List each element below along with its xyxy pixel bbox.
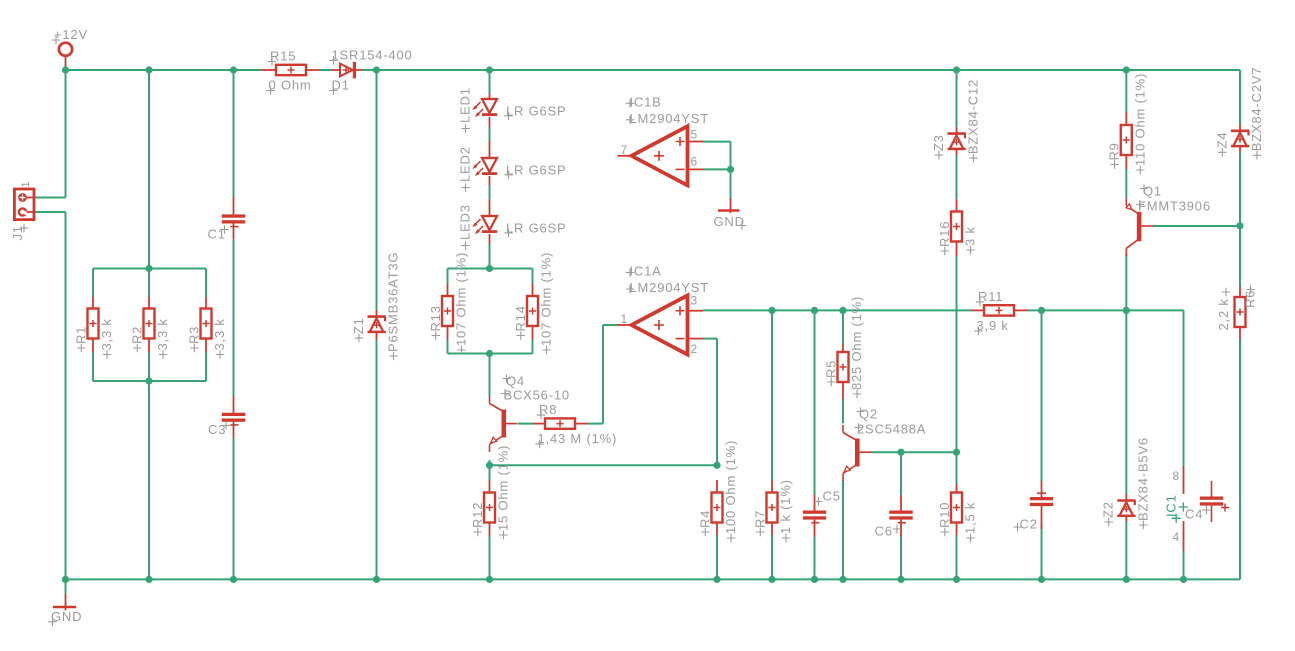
svg-text:LED2: LED2: [458, 146, 473, 182]
wire Z3/R16/R10 column: [956, 70, 958, 579]
wire R8 to IC1A pin1: [518, 325, 618, 424]
resistor R13: [428, 252, 469, 354]
svg-text:LM2904YST: LM2904YST: [630, 111, 709, 126]
svg-text:R14: R14: [513, 305, 528, 331]
resistor R6: [1216, 285, 1258, 339]
capacitor C6: [875, 495, 913, 539]
wire R1R2R3 column: [93, 70, 206, 579]
supply +12V symbol: [52, 27, 88, 67]
TVS diode Z1: [351, 252, 401, 361]
wire R13/R14 bus: [448, 269, 533, 397]
zener Z3: [931, 79, 981, 162]
capacitor C2: [1013, 481, 1053, 532]
svg-text:Z4: Z4: [1214, 132, 1229, 149]
wire R9/Q1/Z2 column: [1125, 70, 1127, 579]
resistor R8: [533, 402, 617, 448]
wire top rail (D1 to Z4 corner): [363, 70, 1241, 125]
resistor R12: [470, 445, 511, 539]
svg-text:R12: R12: [470, 502, 485, 528]
junction rail/Z3 col: [953, 66, 960, 73]
diode D1: [329, 48, 412, 95]
capacitor C5: [803, 489, 841, 537]
LED LED3: [458, 199, 567, 250]
resistor R16: [937, 199, 978, 256]
svg-text:FMMT3906: FMMT3906: [1138, 199, 1211, 214]
svg-text:LED3: LED3: [458, 204, 473, 240]
resistor R1: [73, 297, 114, 359]
IC1 power pins: [1164, 466, 1188, 551]
svg-text:Q2: Q2: [859, 407, 878, 422]
junction rail/C3: [230, 576, 237, 583]
junction midnet/Z2: [1123, 307, 1130, 314]
capacitor C1: [208, 197, 246, 242]
junction rail/LED col: [486, 66, 493, 73]
svg-text:R2: R2: [129, 326, 144, 344]
wire R7 column: [771, 310, 773, 579]
wire Z4/R6 column: [1239, 153, 1241, 580]
svg-text:1: 1: [621, 312, 628, 326]
svg-text:0 Ohm: 0 Ohm: [269, 78, 312, 93]
capacitor C4 (unconnected): [1185, 481, 1229, 522]
wire IC1B pins to GND: [703, 142, 731, 198]
svg-text:2: 2: [691, 342, 698, 356]
svg-text:Z3: Z3: [931, 134, 946, 151]
resistor R4: [697, 440, 738, 542]
resistor R5: [823, 296, 864, 399]
ground GND (IC1B): [714, 198, 747, 230]
op-amp IC1A: [618, 264, 709, 357]
svg-text:3: 3: [691, 294, 698, 308]
svg-text:LED1: LED1: [458, 87, 473, 123]
wire Q2 base row: [871, 451, 957, 453]
resistor R11: [971, 289, 1028, 335]
junction rail/IC1P: [1180, 576, 1187, 583]
junction R123 bottom bus: [145, 377, 152, 384]
svg-text:2SC5488A: 2SC5488A: [857, 422, 926, 437]
svg-text:8: 8: [1173, 469, 1180, 483]
junction rail/Q2e: [839, 576, 846, 583]
wire R15-D1 link: [319, 69, 332, 71]
svg-text:107 Ohm (1%): 107 Ohm (1%): [454, 252, 469, 346]
resistor R14: [513, 252, 554, 354]
junction R13R14 bottom: [486, 350, 493, 357]
resistor R3: [186, 297, 227, 359]
svg-text:R16: R16: [937, 221, 952, 247]
junction rail/C2: [1038, 576, 1045, 583]
LED LED1: [458, 87, 567, 132]
svg-text:R9: R9: [1107, 142, 1122, 160]
wire C2 column: [1041, 310, 1043, 579]
svg-text:Z2: Z2: [1101, 501, 1116, 518]
junction midnet/R7: [768, 307, 775, 314]
wire R5/Q2 column: [842, 310, 844, 579]
junction rail/Z2: [1123, 576, 1130, 583]
junction R123 top bus: [145, 265, 152, 272]
svg-text:LR G6SP: LR G6SP: [506, 162, 567, 177]
svg-text:107 Ohm (1%): 107 Ohm (1%): [539, 252, 554, 346]
svg-text:Z1: Z1: [351, 317, 366, 334]
svg-text:C5: C5: [823, 489, 841, 504]
wire LED chain column: [489, 70, 491, 269]
junction R4 top node: [713, 462, 720, 469]
svg-text:3,3 k: 3,3 k: [155, 318, 170, 350]
svg-text:C1: C1: [208, 227, 226, 242]
svg-text:BZX84-C2V7: BZX84-C2V7: [1249, 67, 1264, 152]
svg-text:IC1A: IC1A: [630, 264, 662, 279]
wire +12V top rail (left of R15): [66, 69, 263, 71]
wire J1 pin2 to GND rail: [36, 212, 66, 579]
junction midnet/R5: [839, 307, 846, 314]
svg-text:C4: C4: [1185, 507, 1203, 522]
svg-text:1,43 M (1%): 1,43 M (1%): [538, 431, 618, 446]
junction rail/Z1: [373, 576, 380, 583]
svg-text:GND: GND: [714, 214, 745, 229]
svg-text:1SR154-400: 1SR154-400: [332, 48, 413, 63]
wire IC1A pin3 mid net: [703, 310, 1184, 579]
svg-text:C2: C2: [1020, 517, 1038, 532]
wire C1/C3 column: [233, 70, 235, 579]
svg-text:R13: R13: [428, 305, 443, 331]
svg-text:R3: R3: [186, 326, 201, 344]
resistor R2: [129, 297, 170, 359]
junction rail/Z1 col: [373, 66, 380, 73]
svg-text:R5: R5: [823, 360, 838, 378]
junction rail/R7: [768, 576, 775, 583]
capacitor C3: [208, 396, 245, 438]
junction rail/C1 col: [230, 66, 237, 73]
junction Q2 base/R16/R10: [953, 449, 960, 456]
wire Q4 emitter to R12 node: [490, 460, 718, 579]
resistor R9: [1107, 73, 1148, 174]
svg-text:3,3 k: 3,3 k: [99, 318, 114, 350]
zener Z4: [1214, 67, 1264, 160]
junction Q4 emitter/R12: [486, 462, 493, 469]
svg-text:3,3 k: 3,3 k: [212, 318, 227, 350]
wire C6 column: [900, 452, 902, 579]
svg-text:15 Ohm (1%): 15 Ohm (1%): [496, 445, 511, 531]
svg-text:4: 4: [1173, 530, 1180, 544]
transistor Q4: [490, 374, 570, 453]
junction rail/R2 col: [145, 66, 152, 73]
svg-text:100 Ohm (1%): 100 Ohm (1%): [723, 440, 738, 534]
svg-text:C3: C3: [208, 422, 226, 437]
ground GND (bottom left): [48, 579, 82, 626]
junction rail/R4: [713, 576, 720, 583]
svg-text:R4: R4: [697, 510, 712, 528]
svg-text:LR G6SP: LR G6SP: [506, 103, 567, 118]
svg-text:R7: R7: [752, 510, 767, 528]
svg-text:Q1: Q1: [1143, 184, 1162, 199]
svg-text:Q4: Q4: [506, 374, 525, 389]
svg-text:IC1B: IC1B: [630, 94, 662, 109]
resistor R7: [752, 479, 793, 542]
resistor R10: [937, 484, 978, 542]
svg-text:LM2904YST: LM2904YST: [630, 280, 709, 295]
svg-text:BZX84-C12: BZX84-C12: [966, 79, 981, 154]
junction Q2 base/C6: [897, 449, 904, 456]
resistor R15: [262, 49, 319, 95]
zener Z2: [1101, 437, 1151, 529]
svg-text:3 k: 3 k: [963, 226, 978, 246]
wire Q1 base row: [1153, 225, 1240, 227]
junction midnet/C5: [811, 307, 818, 314]
svg-text:1: 1: [20, 181, 32, 188]
junction rail/C5: [811, 576, 818, 583]
connector J1: [10, 181, 36, 241]
svg-text:1,5 k: 1,5 k: [963, 502, 978, 534]
svg-text:P6SMB36AT3G: P6SMB36AT3G: [386, 252, 401, 352]
junction +12V/rail: [62, 66, 69, 73]
junction rail/R9 col: [1123, 66, 1130, 73]
junction rail/R10: [953, 576, 960, 583]
transistor Q1: [1126, 184, 1211, 256]
junction LED/R13R14 top: [486, 265, 493, 272]
junction IC1B pin6 node: [727, 166, 734, 173]
junction rail/C6: [897, 576, 904, 583]
svg-text:6: 6: [691, 154, 698, 168]
wire IC1A pin2 to R4 column: [703, 339, 717, 580]
wire Z1 column: [376, 70, 378, 579]
svg-text:BCX56-10: BCX56-10: [504, 388, 570, 403]
wire C5 column: [814, 310, 816, 579]
svg-text:1 k (1%): 1 k (1%): [778, 479, 793, 534]
LED LED2: [458, 141, 567, 192]
svg-text:C6: C6: [875, 524, 893, 539]
svg-text:R10: R10: [937, 502, 952, 528]
wire +12V column to J1 pin1: [36, 70, 66, 198]
wire bottom GND rail: [66, 578, 1241, 580]
svg-text:7: 7: [621, 143, 628, 157]
junction rail/GND: [62, 576, 69, 583]
junction midnet/C2: [1038, 307, 1045, 314]
junction Q1 base/Z4/R6: [1236, 222, 1243, 229]
svg-text:110 Ohm (1%): 110 Ohm (1%): [1132, 73, 1147, 166]
svg-text:LR G6SP: LR G6SP: [506, 220, 567, 235]
svg-text:5: 5: [691, 127, 698, 141]
transistor Q2: [843, 407, 926, 482]
junction rail/R2: [145, 576, 152, 583]
svg-text:BZX84-B5V6: BZX84-B5V6: [1135, 437, 1150, 521]
svg-text:825 Ohm (1%): 825 Ohm (1%): [849, 296, 864, 390]
svg-text:IC1: IC1: [1164, 494, 1179, 517]
junction rail/R12: [486, 576, 493, 583]
svg-text:2,2 k: 2,2 k: [1216, 298, 1231, 330]
svg-text:R1: R1: [73, 326, 88, 344]
op-amp IC1B: [618, 94, 709, 185]
